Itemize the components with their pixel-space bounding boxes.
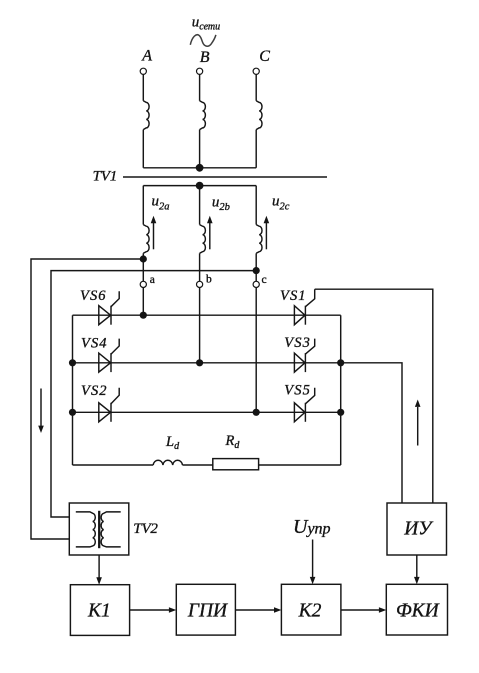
terminal C xyxy=(253,68,259,74)
svg-text:К2: К2 xyxy=(298,600,322,621)
wire row2 to IU xyxy=(341,363,402,503)
bottom rail right segment xyxy=(259,464,341,466)
arrow K1 to GPI xyxy=(130,609,170,611)
arrow u2a xyxy=(153,222,155,249)
wire winding b to node xyxy=(199,253,201,281)
wire node b to row2 xyxy=(199,288,201,363)
wire primary C to bus xyxy=(255,130,257,168)
block IU box xyxy=(387,503,447,555)
wire phase A to primary winding xyxy=(142,74,144,100)
secondary winding b xyxy=(200,225,206,254)
right bus wire xyxy=(340,315,342,465)
resistor Rd xyxy=(213,459,259,470)
thyristor VS6 xyxy=(99,306,111,325)
block GPI box xyxy=(176,584,235,635)
terminal B xyxy=(197,68,203,74)
junction row1 phase a xyxy=(140,312,147,319)
wire from phase c to TV2 xyxy=(51,271,256,517)
wire phase C to primary winding xyxy=(255,74,257,100)
svg-text:TV2: TV2 xyxy=(133,521,158,537)
terminal A xyxy=(140,68,146,74)
node a terminal xyxy=(140,281,146,287)
transformer TV1 core line xyxy=(123,176,327,178)
svg-text:ГПИ: ГПИ xyxy=(187,600,228,621)
arrow u2b xyxy=(209,222,211,249)
annotation arrow down (to TV2) xyxy=(40,389,42,427)
wire node c to row3 xyxy=(255,288,257,413)
junction row2 left bus xyxy=(69,359,76,366)
junction secondary neutral xyxy=(196,182,204,190)
svg-text:ИУ: ИУ xyxy=(403,519,434,540)
thyristor VS4 xyxy=(99,353,111,372)
svg-text:b: b xyxy=(206,274,212,286)
svg-text:VS4: VS4 xyxy=(81,335,108,351)
bottom rail left segment xyxy=(73,464,154,466)
junction primary neutral xyxy=(196,164,204,172)
thyristor VS5 xyxy=(294,403,305,422)
junction row2 phase b xyxy=(196,359,203,366)
arrow u2c xyxy=(265,222,267,249)
TV2 secondary winding xyxy=(101,512,121,547)
svg-text:B: B xyxy=(200,49,210,66)
wire primary B to bus xyxy=(199,130,201,168)
svg-text:VS1: VS1 xyxy=(280,288,307,304)
svg-text:a: a xyxy=(150,274,155,286)
junction row3 phase c xyxy=(253,409,260,416)
block FKI box xyxy=(386,584,447,635)
arrow TV2 to K1 xyxy=(98,555,100,579)
wire winding a to node xyxy=(142,253,144,281)
wire from phase a to TV2 upper-left xyxy=(31,259,143,539)
row3 wire xyxy=(73,411,341,413)
annotation arrow up (to thyristors) xyxy=(417,407,419,446)
svg-text:VS5: VS5 xyxy=(284,382,311,398)
svg-text:ФКИ: ФКИ xyxy=(396,600,440,621)
junction row2 right bus xyxy=(337,359,344,366)
block K2 box xyxy=(281,584,341,635)
junction row3 right bus xyxy=(337,409,344,416)
secondary star bus xyxy=(143,185,256,187)
arrow K2 to FKI xyxy=(341,609,380,611)
row1 cathode wire xyxy=(73,314,341,316)
inductor Ld xyxy=(153,460,182,465)
transformer TV2 box xyxy=(69,503,129,555)
sine wave symbol xyxy=(190,35,216,46)
TV2 primary winding xyxy=(76,512,95,547)
svg-text:VS2: VS2 xyxy=(81,383,108,399)
thyristor VS3 xyxy=(294,353,305,372)
svg-text:TV1: TV1 xyxy=(93,169,117,185)
thyristor VS2 xyxy=(99,403,111,422)
svg-text:VS6: VS6 xyxy=(80,288,107,304)
junction phase a tap xyxy=(140,255,147,262)
svg-text:К1: К1 xyxy=(87,600,111,621)
TV2 core xyxy=(98,511,100,548)
svg-text:c: c xyxy=(262,274,267,286)
wire secondary bus to winding a xyxy=(142,186,144,225)
junction phase c tap xyxy=(253,267,260,274)
primary winding phase C xyxy=(256,101,262,130)
row2 wire xyxy=(73,362,341,364)
wire primary A to bus xyxy=(142,130,144,168)
arrow IU to FKI xyxy=(416,555,418,578)
arrow GPI to K2 xyxy=(235,609,275,611)
primary winding phase B xyxy=(200,101,206,130)
wire phase B to primary winding xyxy=(199,74,201,100)
wire node a to row1 xyxy=(142,288,144,316)
wire secondary bus to winding b xyxy=(199,186,201,225)
left bus wire xyxy=(72,315,74,465)
arrow Uupr to K2 xyxy=(312,540,314,579)
node b terminal xyxy=(197,281,203,287)
bottom rail middle segment xyxy=(182,464,212,466)
secondary winding a xyxy=(143,225,149,254)
primary star bus xyxy=(143,167,256,169)
thyristor VS1 xyxy=(294,306,305,325)
primary winding phase A xyxy=(143,101,149,130)
secondary winding c xyxy=(256,225,262,254)
node c terminal xyxy=(253,281,259,287)
block K1 box xyxy=(70,585,129,636)
wire VS1 gate to IU xyxy=(315,289,433,503)
svg-text:C: C xyxy=(259,48,270,65)
wire winding c to node xyxy=(255,253,257,281)
wire secondary bus to winding c xyxy=(255,186,257,225)
svg-text:VS3: VS3 xyxy=(284,335,311,351)
svg-text:A: A xyxy=(141,47,152,64)
junction row3 left bus xyxy=(69,409,76,416)
